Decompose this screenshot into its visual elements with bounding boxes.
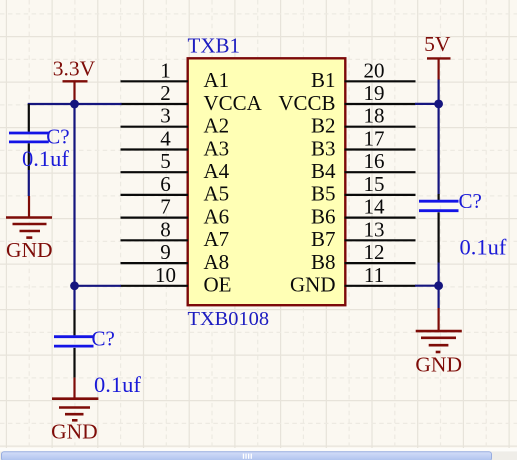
svg-text:1: 1 (160, 58, 171, 82)
pin 11 (GND) (290, 263, 416, 297)
wire OE to pin 10 (75, 285, 122, 287)
svg-text:GND: GND (290, 273, 336, 297)
svg-text:B8: B8 (311, 250, 336, 274)
capacitor C3 pin lower (438, 212, 440, 262)
pin 2 (VCCA) (121, 81, 263, 115)
ground GND (bottom left) (51, 378, 98, 444)
pin 10 (OE) (121, 263, 232, 297)
svg-text:2: 2 (160, 81, 171, 105)
svg-text:B1: B1 (311, 68, 336, 92)
svg-text:OE: OE (204, 273, 232, 297)
junction GND/pin11 (434, 281, 443, 290)
pin 4 (A3) (121, 127, 230, 161)
svg-text:11: 11 (364, 263, 384, 287)
pin 7 (A6) (121, 195, 230, 229)
pin 5 (A4) (121, 149, 230, 183)
svg-text:A3: A3 (204, 136, 230, 160)
svg-text:C?: C? (92, 327, 115, 351)
power port 3.3V (53, 56, 96, 101)
pin 8 (A7) (121, 217, 230, 251)
ground GND (left) (6, 196, 53, 262)
pin 12 (B8) (311, 240, 416, 274)
svg-text:B7: B7 (311, 227, 336, 251)
pin 18 (B2) (311, 104, 416, 138)
pin 16 (B4) (311, 149, 416, 183)
svg-text:A1: A1 (204, 68, 230, 92)
pin 15 (B5) (311, 172, 416, 206)
pin 17 (B3) (311, 127, 416, 161)
capacitor C2 (C?) pin upper (73, 310, 75, 335)
svg-text:VCCA: VCCA (204, 91, 263, 115)
pin 3 (A2) (121, 104, 230, 138)
pin 9 (A8) (121, 240, 230, 274)
wire 5V vertical (438, 80, 440, 195)
capacitor C1 pin lower (28, 143, 30, 170)
svg-text:18: 18 (364, 104, 385, 128)
svg-text:C?: C? (46, 125, 69, 149)
svg-text:19: 19 (364, 81, 385, 105)
ground GND (right) (415, 308, 462, 376)
pin 20 (B1) (311, 58, 416, 92)
junction 5V/VCCB (434, 100, 443, 109)
wire C1 to GND (28, 170, 30, 196)
junction OE (70, 281, 79, 290)
IC U1 TXB0108 body (188, 58, 346, 305)
svg-text:10: 10 (155, 263, 176, 287)
svg-text:3: 3 (160, 104, 171, 128)
svg-text:5V: 5V (424, 32, 451, 56)
capacitor C1 (C?) plates (9, 133, 49, 142)
wire below C3 to GND net (438, 262, 440, 309)
svg-text:A5: A5 (204, 182, 230, 206)
svg-text:16: 16 (364, 149, 385, 173)
pin 13 (B7) (311, 217, 416, 251)
svg-text:6: 6 (160, 172, 171, 196)
svg-text:5: 5 (160, 149, 171, 173)
svg-text:B3: B3 (311, 136, 336, 160)
svg-text:0.1uf: 0.1uf (94, 372, 141, 397)
svg-text:VCCB: VCCB (278, 91, 335, 115)
svg-text:7: 7 (160, 195, 171, 219)
svg-text:A8: A8 (204, 250, 230, 274)
svg-text:B6: B6 (311, 204, 336, 228)
capacitor C2 pin lower (73, 348, 75, 378)
svg-text:20: 20 (364, 58, 385, 82)
svg-text:TXB0108: TXB0108 (188, 308, 270, 330)
wire 3.3V rail horizontal (28, 103, 122, 105)
wire GND to pin 11 (415, 285, 439, 287)
svg-text:B4: B4 (311, 159, 336, 183)
power port 5V (424, 32, 451, 80)
capacitor C3 (C?) plates (419, 201, 459, 211)
svg-text:0.1uf: 0.1uf (460, 235, 507, 260)
wire 5V to VCCB pin 19 (415, 103, 439, 105)
svg-text:GND: GND (6, 238, 53, 262)
svg-text:A2: A2 (204, 114, 230, 138)
capacitor C3 (C?) pin upper (438, 194, 440, 200)
svg-text:GND: GND (415, 352, 462, 376)
svg-text:B2: B2 (311, 114, 336, 138)
svg-text:9: 9 (160, 240, 171, 264)
svg-text:3.3V: 3.3V (53, 56, 96, 80)
svg-text:0.1uf: 0.1uf (22, 146, 69, 171)
svg-text:17: 17 (364, 127, 385, 151)
svg-text:TXB1: TXB1 (188, 34, 241, 58)
svg-text:12: 12 (364, 240, 385, 264)
capacitor C2 (C?) plates (54, 337, 94, 346)
svg-text:4: 4 (160, 127, 171, 151)
junction 3.3V/VCCA (70, 100, 79, 109)
pin 1 (A1) (121, 58, 230, 92)
svg-text:C?: C? (459, 189, 482, 213)
svg-text:A6: A6 (204, 204, 230, 228)
svg-text:13: 13 (364, 217, 385, 241)
wire 3.3V rail vertical to OE (73, 104, 75, 311)
svg-text:GND: GND (51, 419, 98, 443)
pin 14 (B6) (311, 195, 416, 229)
svg-text:15: 15 (364, 172, 385, 196)
scrollbar horizontal (0, 448, 517, 460)
capacitor C1 (C?) pin upper (28, 104, 30, 132)
pin 6 (A5) (121, 172, 230, 206)
svg-text:14: 14 (364, 195, 386, 219)
svg-text:A4: A4 (204, 159, 230, 183)
svg-text:8: 8 (160, 217, 171, 241)
pin 19 (VCCB) (278, 81, 415, 115)
svg-text:B5: B5 (311, 182, 336, 206)
svg-text:A7: A7 (204, 227, 230, 251)
